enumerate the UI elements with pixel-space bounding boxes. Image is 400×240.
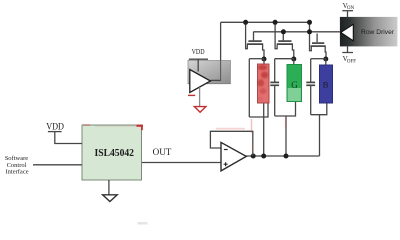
svg-text:B: B	[323, 80, 329, 90]
svg-text:OFF: OFF	[347, 60, 356, 65]
svg-text:VDD: VDD	[192, 47, 206, 56]
svg-text:VDD: VDD	[46, 121, 64, 132]
svg-text:Row Driver: Row Driver	[361, 29, 395, 36]
svg-text:Interface: Interface	[6, 169, 29, 176]
svg-text:ISL45042: ISL45042	[95, 148, 135, 159]
svg-text:G: G	[291, 80, 298, 90]
svg-text:OUT: OUT	[153, 148, 172, 158]
